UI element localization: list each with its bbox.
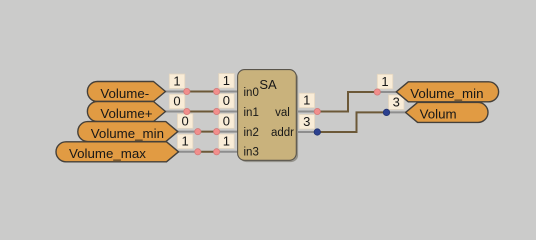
wire addr stub to Volum tag (387, 111, 407, 113)
wire in0 middle segment (187, 91, 217, 93)
wire in1 stub to block (217, 111, 239, 113)
wire addr routed segment (317, 112, 386, 132)
probe junction red (in2 left) (195, 129, 201, 135)
wire in1 middle segment (187, 111, 217, 113)
svg-text:Volum: Volum (420, 107, 457, 122)
wire in1 stub (Volume+ tip to probe) (165, 111, 187, 113)
svg-text:3: 3 (303, 114, 310, 129)
probe junction red (in0 left) (184, 88, 190, 94)
input tag Volume_min (78, 122, 178, 142)
value box 3 (addr pin) (299, 114, 315, 129)
wire val stub to Volume_min tag (377, 91, 397, 93)
wire in0 stub to block (217, 91, 239, 93)
svg-text:Volume-: Volume- (100, 86, 149, 101)
svg-text:addr: addr (271, 127, 294, 139)
node junction blue (addr at tag) (383, 109, 389, 115)
wire in2 middle segment (198, 131, 217, 133)
svg-text:0: 0 (223, 113, 230, 128)
svg-text:val: val (275, 107, 290, 119)
probe junction red (in1 left) (184, 108, 190, 114)
wire in2 stub to block (217, 131, 239, 133)
value box 3 (at Volum tag) (389, 94, 405, 109)
input tag Volume_max (56, 142, 179, 162)
value box 0 (at in1 pin) (219, 93, 235, 108)
probe junction red (in2 right) (214, 129, 220, 135)
wire in3 middle segment (198, 151, 217, 153)
svg-text:1: 1 (381, 74, 388, 89)
svg-text:Volume_max: Volume_max (69, 146, 146, 161)
svg-text:0: 0 (173, 94, 180, 109)
value box 0 (in2 source) (177, 113, 193, 128)
svg-text:0: 0 (181, 113, 188, 128)
value box 1 (at in0 pin) (219, 73, 235, 88)
wire in2 stub (Volume_min tip to probe) (178, 131, 198, 133)
value box 1 (in3 source) (177, 134, 193, 149)
wire in3 stub to block (217, 151, 239, 153)
svg-text:in3: in3 (244, 146, 259, 158)
probe junction red (val at block) (314, 108, 320, 114)
svg-text:Volume_min: Volume_min (91, 126, 164, 141)
block U1 SA (analog multiplexer) body (238, 70, 297, 161)
node junction blue (addr at block) (314, 129, 320, 135)
value box 1 (in0 source) (169, 74, 185, 89)
value box 1 (val pin) (299, 93, 315, 108)
svg-text:Volume_min: Volume_min (410, 86, 483, 101)
wire val routed segment (317, 92, 377, 112)
probe junction red (in3 right) (214, 149, 220, 155)
probe junction red (in1 right) (214, 108, 220, 114)
value box 0 (at in2 pin) (219, 113, 235, 128)
probe junction red (in3 left) (195, 149, 201, 155)
wire in0 stub (Volume- tip to probe) (165, 91, 187, 93)
output tag Volume_min (396, 82, 498, 102)
svg-text:Volume+: Volume+ (100, 106, 152, 121)
probe junction red (in0 right) (214, 88, 220, 94)
block U1 SA (analog multiplexer) shadow (239, 71, 298, 162)
svg-text:3: 3 (393, 94, 400, 109)
svg-text:0: 0 (223, 93, 230, 108)
output tag Volum (406, 102, 488, 122)
svg-text:1: 1 (223, 73, 230, 88)
svg-text:in2: in2 (244, 127, 259, 139)
svg-text:1: 1 (181, 134, 188, 149)
svg-text:1: 1 (303, 93, 310, 108)
input tag Volume+ (87, 102, 165, 122)
svg-text:in0: in0 (244, 87, 259, 99)
svg-text:in1: in1 (244, 107, 259, 119)
svg-text:1: 1 (223, 134, 230, 149)
value box 1 (at in3 pin) (219, 134, 235, 149)
value box 0 (in1 source) (169, 94, 185, 109)
value box 1 (at Volume_min tag) (377, 74, 393, 89)
wire val stub from block (296, 111, 317, 113)
wire addr stub from block (296, 131, 317, 133)
svg-text:SA: SA (259, 77, 277, 92)
input tag Volume- (87, 82, 165, 102)
svg-text:1: 1 (173, 74, 180, 89)
probe junction red (val at tag) (374, 89, 380, 95)
wire in3 stub (Volume_max tip to probe) (179, 151, 198, 153)
